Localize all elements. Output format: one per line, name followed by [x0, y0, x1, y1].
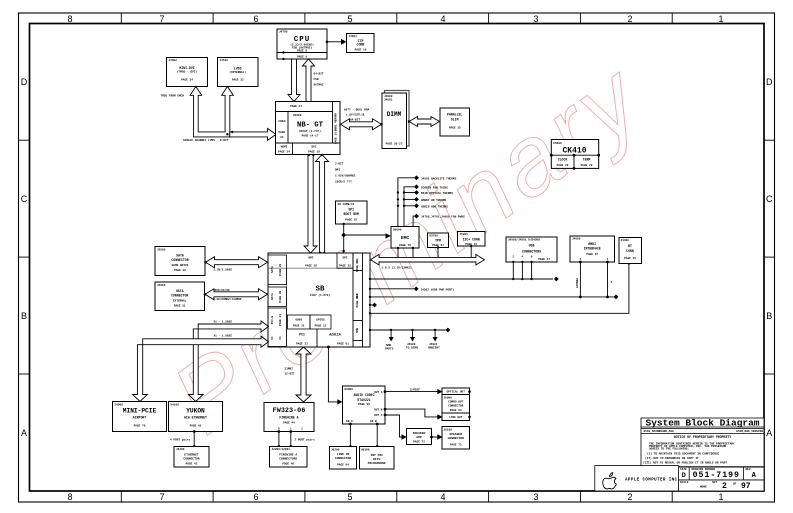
svg-text:PAGE 63: PAGE 63: [450, 409, 462, 412]
svg-text:D: D: [766, 77, 773, 87]
label FSB bus: [314, 73, 324, 87]
svg-text:EMC: EMC: [401, 235, 410, 241]
TPM U5100: [428, 233, 449, 248]
svg-text:X1 - 1.5GHZ: X1 - 1.5GHZ: [214, 335, 233, 338]
svg-text:SINGLE CHANNEL LVDS - 8-BIT: SINGLE CHANNEL LVDS - 8-BIT: [183, 139, 229, 142]
svg-text:64-BIT: 64-BIT: [350, 119, 360, 122]
svg-text:J2505: J2505: [157, 248, 166, 251]
svg-text:CONNECTORS: CONNECTORS: [279, 458, 297, 461]
svg-text:APPLE COMPUTER INC.: APPLE COMPUTER INC.: [625, 479, 680, 483]
CK410 clock U5600: [550, 140, 600, 170]
wire CPU to ITP: [326, 39, 347, 45]
svg-text:LINE IN: LINE IN: [337, 453, 350, 456]
svg-text:U5000: U5000: [393, 228, 402, 231]
wire YUKON to ethernet connector: [170, 430, 196, 448]
svg-text:SO 16MB/32: SO 16MB/32: [338, 202, 355, 206]
svg-text:REV.: REV.: [746, 468, 753, 471]
svg-text:PAGE 24: PAGE 24: [279, 314, 282, 326]
svg-text:PAGE 31: PAGE 31: [174, 304, 186, 307]
svg-text:J4600: J4600: [572, 238, 581, 241]
svg-text:YUKON: YUKON: [186, 408, 205, 415]
svg-text:AGREES TO THE FOLLOWING:: AGREES TO THE FOLLOWING:: [649, 448, 690, 451]
label DDR2 bus: [344, 109, 369, 122]
svg-text:PAGE 10: PAGE 10: [355, 49, 367, 52]
svg-text:1.8V/SSTL18: 1.8V/SSTL18: [346, 113, 365, 117]
svg-text:GPIOS: GPIOS: [316, 318, 325, 321]
svg-text:PAGE 25: PAGE 25: [345, 219, 357, 222]
svg-text:(II) NOT TO REPRODUCE OR COPY: (II) NOT TO REPRODUCE OR COPY IT: [645, 456, 699, 460]
svg-text:051B_DWG_VERSION: 051B_DWG_VERSION: [736, 430, 763, 433]
svg-text:2: 2: [627, 492, 632, 502]
svg-text:6066: 6066: [295, 318, 302, 321]
svg-text:1-8.5 (3.3V/33MHZ): 1-8.5 (3.3V/33MHZ): [382, 266, 413, 270]
svg-text:PAGE 18: PAGE 18: [308, 150, 320, 153]
LINE IN CONNECTOR J6200: [330, 447, 357, 470]
svg-text:HARD DRIVE: HARD DRIVE: [172, 264, 189, 267]
svg-text:PAGE 47: PAGE 47: [538, 258, 550, 261]
svg-text:J2000/J2001: J2000/J2001: [272, 447, 291, 451]
svg-text:DIMM: DIMM: [387, 111, 402, 118]
svg-text:CONNECTOR: CONNECTOR: [448, 437, 464, 440]
wire SPI ROM to SB and EMC: [341, 223, 391, 253]
svg-text:945GT (1-747): 945GT (1-747): [299, 129, 321, 133]
svg-text:ETHERNET: ETHERNET: [184, 454, 199, 457]
svg-text:SLIM: SLIM: [451, 118, 459, 122]
svg-text:5: 5: [347, 492, 352, 502]
svg-text:4 PORT pairs: 4 PORT pairs: [170, 438, 190, 442]
UATA CONNECTOR J2600: [155, 282, 205, 311]
svg-text:PAGE 28: PAGE 28: [557, 164, 569, 167]
svg-text:(INTERNAL): (INTERNAL): [229, 70, 246, 74]
svg-text:(TMDS - DVI): (TMDS - DVI): [177, 70, 197, 74]
svg-text:X1: X1: [271, 336, 274, 340]
svg-text:PAGE 34: PAGE 34: [181, 79, 193, 82]
SPI BOOT ROM U1100: [336, 201, 368, 224]
SPEAKER CONNECTOR J6100: [442, 427, 470, 450]
svg-text:SPI: SPI: [348, 208, 354, 212]
svg-text:8: 8: [67, 492, 72, 502]
svg-text:J4502: J4502: [169, 59, 178, 62]
svg-text:PAGE 45: PAGE 45: [624, 257, 636, 260]
USB wire stub J4502: [369, 286, 455, 291]
arrow CPU to NB-GT (down): [288, 59, 300, 102]
USB stub short: [369, 303, 377, 308]
svg-text:INTERFACE: INTERFACE: [584, 247, 601, 251]
svg-text:CONN: CONN: [626, 249, 634, 253]
bus UATA to SB: [205, 289, 268, 300]
svg-text:J4510: J4510: [220, 59, 229, 62]
svg-text:FIREWIRE A: FIREWIRE A: [279, 454, 297, 457]
svg-text:PAGE 22: PAGE 22: [296, 343, 308, 346]
NB-GT U2600: [276, 102, 341, 155]
svg-text:2-BIT: 2-BIT: [335, 163, 344, 166]
svg-text:INT MIC: INT MIC: [370, 454, 383, 457]
svg-text:PAGE 46: PAGE 46: [282, 463, 294, 466]
wire TPM to LPC bus: [437, 246, 439, 261]
svg-text:D: D: [682, 472, 686, 480]
svg-text:AIRPORT: AIRPORT: [133, 416, 146, 420]
svg-text:PCI: PCI: [299, 333, 305, 337]
svg-text:(I) TO MAINTAIN THIS DOCUMENT: (I) TO MAINTAIN THIS DOCUMENT IN CONFIDE…: [647, 452, 719, 456]
svg-text:32-BIT: 32-BIT: [285, 372, 295, 375]
svg-text:OUT C: OUT C: [374, 414, 383, 417]
LPC bus arrow (SB to peripherals): [371, 254, 485, 265]
svg-text:PAGE 20: PAGE 20: [305, 264, 317, 267]
svg-text:TMDS FROM GMCH: TMDS FROM GMCH: [161, 94, 185, 97]
svg-text:33MHZ: 33MHZ: [285, 367, 294, 370]
svg-text:CLOCK: CLOCK: [558, 157, 568, 161]
svg-text:LVDS: LVDS: [234, 66, 242, 70]
svg-text:X1: X1: [279, 336, 282, 340]
svg-text:PAGE 14-17: PAGE 14-17: [302, 135, 319, 138]
svg-text:U4100: U4100: [171, 403, 180, 406]
title block: [595, 418, 764, 491]
svg-text:SPEAKER: SPEAKER: [413, 432, 426, 435]
svg-text:J2605: J2605: [157, 284, 166, 287]
svg-text:SPI: SPI: [342, 256, 347, 259]
svg-text:PAGE 21: PAGE 21: [356, 260, 359, 272]
svg-text:J6000: J6000: [444, 396, 453, 399]
svg-text:I2C+ CONN: I2C+ CONN: [463, 237, 480, 241]
COMBO OUT connector stack J6000: [442, 388, 471, 421]
svg-text:PAGE 64: PAGE 64: [337, 464, 349, 467]
INT MIC block: [360, 447, 395, 470]
svg-text:DDR2 MEMORY: DDR2 MEMORY: [334, 112, 337, 131]
svg-text:DMI: DMI: [335, 169, 340, 172]
svg-text:J4001: J4001: [429, 343, 438, 346]
svg-text:VIDEO: VIDEO: [278, 120, 286, 123]
svg-text:B: B: [21, 311, 27, 321]
svg-text:1: 1: [718, 14, 723, 24]
svg-text:PAGE 21: PAGE 21: [293, 325, 305, 328]
svg-text:64-BIT: 64-BIT: [314, 73, 324, 76]
svg-text:WITH: WITH: [373, 458, 380, 461]
svg-text:AZALIA: AZALIA: [329, 333, 341, 337]
svg-text:B: B: [766, 311, 772, 321]
SB southbridge U3100: [268, 253, 370, 347]
PCIe x1 bus SB to MINI-PCIE: [133, 336, 269, 401]
apple logo: [603, 473, 617, 489]
svg-text:PAGE 60: PAGE 60: [358, 403, 370, 406]
svg-text:FW323-06: FW323-06: [273, 407, 306, 415]
arrow SB to NB-GT (up DMI): [316, 155, 329, 254]
svg-text:051B_MAINBOARD_A00: 051B_MAINBOARD_A00: [644, 430, 675, 433]
svg-text:TERM: TERM: [583, 157, 591, 161]
svg-text:J4400: J4400: [621, 239, 630, 242]
svg-text:J4901: J4901: [349, 35, 358, 38]
DMI junction dots: [308, 154, 310, 156]
svg-text:8: 8: [67, 14, 72, 24]
wires RMT interface pins: [576, 261, 612, 299]
AUDIO CODEC STA9221 U6000: [343, 386, 386, 424]
svg-text:U6300: U6300: [361, 448, 370, 451]
SMB stub wires: [369, 328, 451, 351]
CPU U4700: [277, 29, 327, 60]
wires USB connectors pins: [512, 261, 533, 280]
svg-text:OUT A: OUT A: [374, 391, 383, 394]
svg-text:U6000: U6000: [345, 388, 354, 391]
svg-text:SPEAKER: SPEAKER: [449, 433, 462, 436]
svg-text:J4700: J4700: [279, 31, 288, 34]
label DMI bus: [335, 163, 355, 184]
svg-text:X1 - 1.5GHZ: X1 - 1.5GHZ: [214, 320, 233, 323]
PCI bus SB to FW323 (double arrow): [296, 347, 311, 402]
svg-text:DAC: DAC: [311, 146, 316, 149]
arrow video channel to MINI-DVI and LVDS: [190, 87, 233, 137]
svg-text:OPTICAL OUT: OPTICAL OUT: [446, 391, 465, 394]
RMT INTERFACE J4600: [570, 236, 615, 262]
svg-text:PAGE 72: PAGE 72: [413, 441, 425, 444]
svg-text:PAGE 33: PAGE 33: [232, 79, 244, 82]
svg-text:MINI-DVI: MINI-DVI: [179, 66, 194, 70]
svg-text:BOOT ROM: BOOT ROM: [344, 212, 359, 216]
ITP CONN J4900: [347, 34, 375, 53]
svg-text:CAMERA: CAMERA: [576, 278, 579, 288]
svg-text:PAGE 29: PAGE 29: [279, 264, 282, 276]
LVDS block: [218, 58, 259, 87]
svg-text:1.5V/1.5GHZ: 1.5V/1.5GHZ: [214, 268, 233, 272]
svg-text:A: A: [766, 428, 772, 438]
svg-text:AMBNT ON THERMS: AMBNT ON THERMS: [421, 199, 446, 202]
svg-text:AMBIENT: AMBIENT: [428, 347, 440, 350]
svg-text:PAGE 29: PAGE 29: [581, 164, 593, 167]
MINI-DVI block: [167, 58, 208, 87]
svg-text:667MHZ: 667MHZ: [314, 84, 324, 87]
svg-text:U5700: U5700: [430, 235, 439, 238]
svg-text:BT: BT: [628, 244, 632, 248]
svg-text:SATA: SATA: [176, 254, 184, 258]
svg-text:PAGE 25: PAGE 25: [339, 264, 351, 267]
wire I2C CONN to LPC bus: [470, 245, 472, 261]
wire codec to speaker amp: [384, 414, 407, 440]
arrow NB-GT to CPU (up): [303, 59, 315, 102]
MINI-PCIE AIRPORT J4900: [113, 402, 167, 432]
EMC stub junction dots: [397, 191, 406, 207]
svg-text:CONNECTOR: CONNECTOR: [183, 458, 199, 461]
svg-text:PAGE: PAGE: [278, 131, 285, 134]
svg-text:7: 7: [159, 14, 164, 24]
svg-text:J4700,J4701,J4900 FAN PWMS: J4700,J4701,J4900 FAN PWMS: [421, 216, 465, 219]
svg-text:PAGE 34: PAGE 34: [278, 150, 290, 153]
wires FW323 to firewire connectors: [278, 430, 315, 448]
svg-text:COMBO OUT: COMBO OUT: [448, 401, 463, 404]
svg-text:SATA: SATA: [271, 266, 274, 273]
svg-text:PAGE 76: PAGE 76: [399, 244, 411, 247]
svg-text:SIZE: SIZE: [680, 468, 687, 471]
svg-text:PAGE 40: PAGE 40: [356, 295, 359, 307]
svg-text:FSB: FSB: [314, 78, 319, 81]
svg-text:MICROPHONE: MICROPHONE: [368, 462, 386, 465]
svg-text:2 PORT pairs: 2 PORT pairs: [295, 438, 315, 442]
svg-text:J4001: J4001: [384, 99, 393, 102]
svg-text:STA9221: STA9221: [357, 398, 370, 402]
svg-text:NOTICE OF PROPRIETARY PROPERTY: NOTICE OF PROPRIETARY PROPERTY: [674, 435, 731, 439]
svg-text:XXX/XX/XX: XXX/XX/XX: [215, 288, 230, 292]
svg-text:NB- GT: NB- GT: [297, 122, 324, 130]
USB wire SB to RMT interface: [369, 294, 619, 299]
svg-text:LINE OUT: LINE OUT: [449, 416, 463, 419]
USB CONNECTORS J4500: [506, 237, 557, 262]
svg-text:S/PDIF: S/PDIF: [410, 388, 420, 392]
svg-text:AMP: AMP: [416, 436, 422, 439]
svg-text:PAGE 23: PAGE 23: [315, 325, 327, 328]
svg-text:AUDIO CODEC: AUDIO CODEC: [353, 393, 374, 397]
svg-text:3.3V/66MHZ/133MHZ: 3.3V/66MHZ/133MHZ: [213, 297, 242, 301]
svg-text:DMI: DMI: [308, 256, 313, 259]
svg-text:PCI-E: PCI-E: [271, 315, 274, 324]
wire codec to line out: [384, 408, 443, 420]
EMC stub diamonds: [414, 175, 419, 218]
svg-text:4: 4: [440, 14, 445, 24]
svg-text:PAGE 42: PAGE 42: [186, 463, 198, 466]
svg-text:MAIN OPTICAL THERMS: MAIN OPTICAL THERMS: [421, 192, 453, 195]
svg-text:AUDIO HDD THERMS: AUDIO HDD THERMS: [421, 205, 448, 208]
wires codec to line in and int mic: [349, 423, 379, 448]
wire EMC to LPC bus: [397, 247, 414, 261]
PCIe x1 bus SB to YUKON: [188, 321, 268, 402]
svg-text:OUT B: OUT B: [374, 408, 383, 411]
svg-text:5: 5: [347, 14, 352, 24]
svg-text:J5205: J5205: [460, 233, 469, 236]
svg-text:RMDI: RMDI: [588, 242, 596, 246]
svg-text:PAGE 26-27: PAGE 26-27: [386, 143, 403, 146]
svg-text:ICH7 (1-670): ICH7 (1-670): [310, 293, 330, 297]
svg-text:EXTERNAL: EXTERNAL: [173, 300, 187, 303]
svg-text:PAGE 41: PAGE 41: [190, 425, 202, 428]
YUKON GIG ETHERNET U4100: [169, 402, 223, 432]
svg-text:UATA: UATA: [271, 293, 274, 300]
svg-text:CONNECTOR: CONNECTOR: [448, 405, 463, 408]
svg-text:SCALE: SCALE: [680, 481, 689, 484]
svg-text:PARTS: PARTS: [385, 348, 394, 351]
svg-text:TPM: TPM: [435, 239, 441, 243]
svg-text:CONN: CONN: [357, 43, 365, 47]
EMC sensor stub wires: [398, 178, 415, 227]
svg-text:PAGE 15: PAGE 15: [334, 132, 337, 144]
svg-text:CONNECTOR: CONNECTOR: [335, 457, 351, 460]
svg-text:GIG ETHERNET: GIG ETHERNET: [184, 416, 207, 420]
svg-text:PAGE 14: PAGE 14: [290, 105, 302, 108]
svg-text:J4000: J4000: [407, 343, 416, 346]
svg-text:C: C: [21, 194, 28, 204]
arrow NB-GT to SB (down DMI): [304, 155, 317, 254]
SPEAKER AMP U6100: [407, 429, 432, 445]
svg-text:7: 7: [159, 492, 164, 502]
svg-text:UATA: UATA: [176, 289, 184, 293]
svg-text:PAGE 30: PAGE 30: [174, 269, 186, 272]
svg-text:PAGE 70: PAGE 70: [134, 425, 146, 428]
junction dots on video channel: [226, 133, 228, 135]
svg-text:3: 3: [533, 14, 538, 24]
FW323-06 U2000: [264, 403, 314, 432]
svg-text:CONNECTOR: CONNECTOR: [171, 258, 188, 262]
PARALLEL SLIM drive block: [440, 108, 470, 136]
svg-text:J4200: J4200: [176, 448, 185, 451]
svg-text:PAGE 30: PAGE 30: [279, 291, 282, 303]
BT CONN J4400: [619, 238, 642, 264]
svg-text:SMB: SMB: [386, 344, 391, 347]
svg-text:23: 23: [280, 136, 284, 139]
svg-text:6: 6: [253, 492, 258, 502]
svg-text:J4502 BACKLITE THERMS: J4502 BACKLITE THERMS: [421, 177, 457, 180]
svg-text:051-7199: 051-7199: [693, 471, 740, 480]
EMC U5000: [391, 227, 419, 249]
svg-text:PAGE 44: PAGE 44: [283, 421, 295, 424]
arrow video channel into NB-GT: [230, 128, 276, 140]
bus SATA to SB: [206, 257, 268, 268]
svg-text:TO DIMM: TO DIMM: [406, 347, 418, 350]
svg-text:10GB/S ???: 10GB/S ???: [335, 180, 352, 184]
svg-text:2: 2: [722, 482, 727, 491]
svg-text:U2600: U2600: [293, 114, 302, 117]
svg-text:J6200: J6200: [331, 448, 340, 451]
svg-text:MINI-PCIE: MINI-PCIE: [123, 408, 157, 415]
svg-text:1.05V/800MHZ: 1.05V/800MHZ: [335, 174, 355, 178]
svg-text:J6100: J6100: [444, 428, 453, 431]
svg-text:HDMI: HDMI: [281, 146, 288, 149]
svg-text:SMB: SMB: [356, 328, 359, 333]
svg-text:USB: USB: [529, 244, 535, 248]
svg-text:FIREWIRE A: FIREWIRE A: [279, 416, 298, 420]
svg-text:A: A: [21, 428, 27, 438]
svg-text:4: 4: [440, 492, 445, 502]
svg-text:PARALLEL: PARALLEL: [447, 113, 462, 117]
svg-text:1: 1: [718, 492, 723, 502]
ETHERNET CONNECTOR J4200: [174, 447, 209, 468]
wire speaker amp to speaker connector: [430, 434, 442, 439]
bus NB-GT to DIMM: [341, 119, 382, 130]
FIREWIRE A CONNECTORS J2000: [270, 447, 308, 468]
svg-text:NONE: NONE: [700, 486, 707, 489]
svg-text:3: 3: [533, 492, 538, 502]
svg-text:SCREEN FAN TACHS: SCREEN FAN TACHS: [421, 186, 448, 189]
svg-text:PAGE 73: PAGE 73: [450, 444, 462, 447]
watermark Preliminary: [153, 42, 663, 454]
svg-text:D: D: [21, 77, 28, 87]
wire codec SPDIF to combo out: [384, 388, 443, 395]
svg-text:PAGE 35: PAGE 35: [449, 127, 461, 130]
svg-text:C: C: [766, 194, 773, 204]
USB wire SB to BT conn: [369, 262, 630, 314]
svg-text:PAGE 8: PAGE 8: [297, 50, 307, 53]
svg-text:PAGE 61: PAGE 61: [337, 343, 349, 346]
wire SB AZALIA to audio codec: [327, 346, 343, 405]
svg-text:OF: OF: [733, 483, 737, 486]
svg-text:(III) NOT TO REVEAL OR PUBLISH: (III) NOT TO REVEAL OR PUBLISH IT IN WHO…: [643, 461, 727, 465]
svg-text:97: 97: [741, 482, 751, 491]
DIMM J4000: [382, 93, 407, 149]
svg-text:SB: SB: [315, 286, 325, 294]
svg-text:667? - DUAL RAM: 667? - DUAL RAM: [344, 109, 369, 112]
svg-text:U5600: U5600: [553, 142, 562, 145]
svg-text:J4900: J4900: [115, 403, 124, 406]
svg-text:IN B: IN B: [370, 420, 377, 423]
USB wire SB to USB connectors: [369, 277, 559, 282]
SATA CONNECTOR J2500: [155, 247, 205, 276]
DIMM shadow: [385, 91, 410, 147]
svg-text:2: 2: [627, 14, 632, 24]
svg-text:PAGE 9: PAGE 9: [297, 55, 307, 58]
svg-text:SHT: SHT: [712, 481, 717, 484]
svg-text:CONNECTORS: CONNECTORS: [522, 250, 541, 254]
I2C+ CONN J5200: [458, 232, 486, 247]
svg-text:6: 6: [253, 14, 258, 24]
EMC stub labels: [421, 177, 465, 218]
bus DIMM to PARALLEL SLIM: [409, 117, 440, 127]
svg-text:J4502 (USB PWR PORT): J4502 (USB PWR PORT): [421, 287, 455, 291]
svg-text:PAGE 67: PAGE 67: [586, 253, 598, 256]
svg-text:IN A: IN A: [346, 420, 353, 423]
